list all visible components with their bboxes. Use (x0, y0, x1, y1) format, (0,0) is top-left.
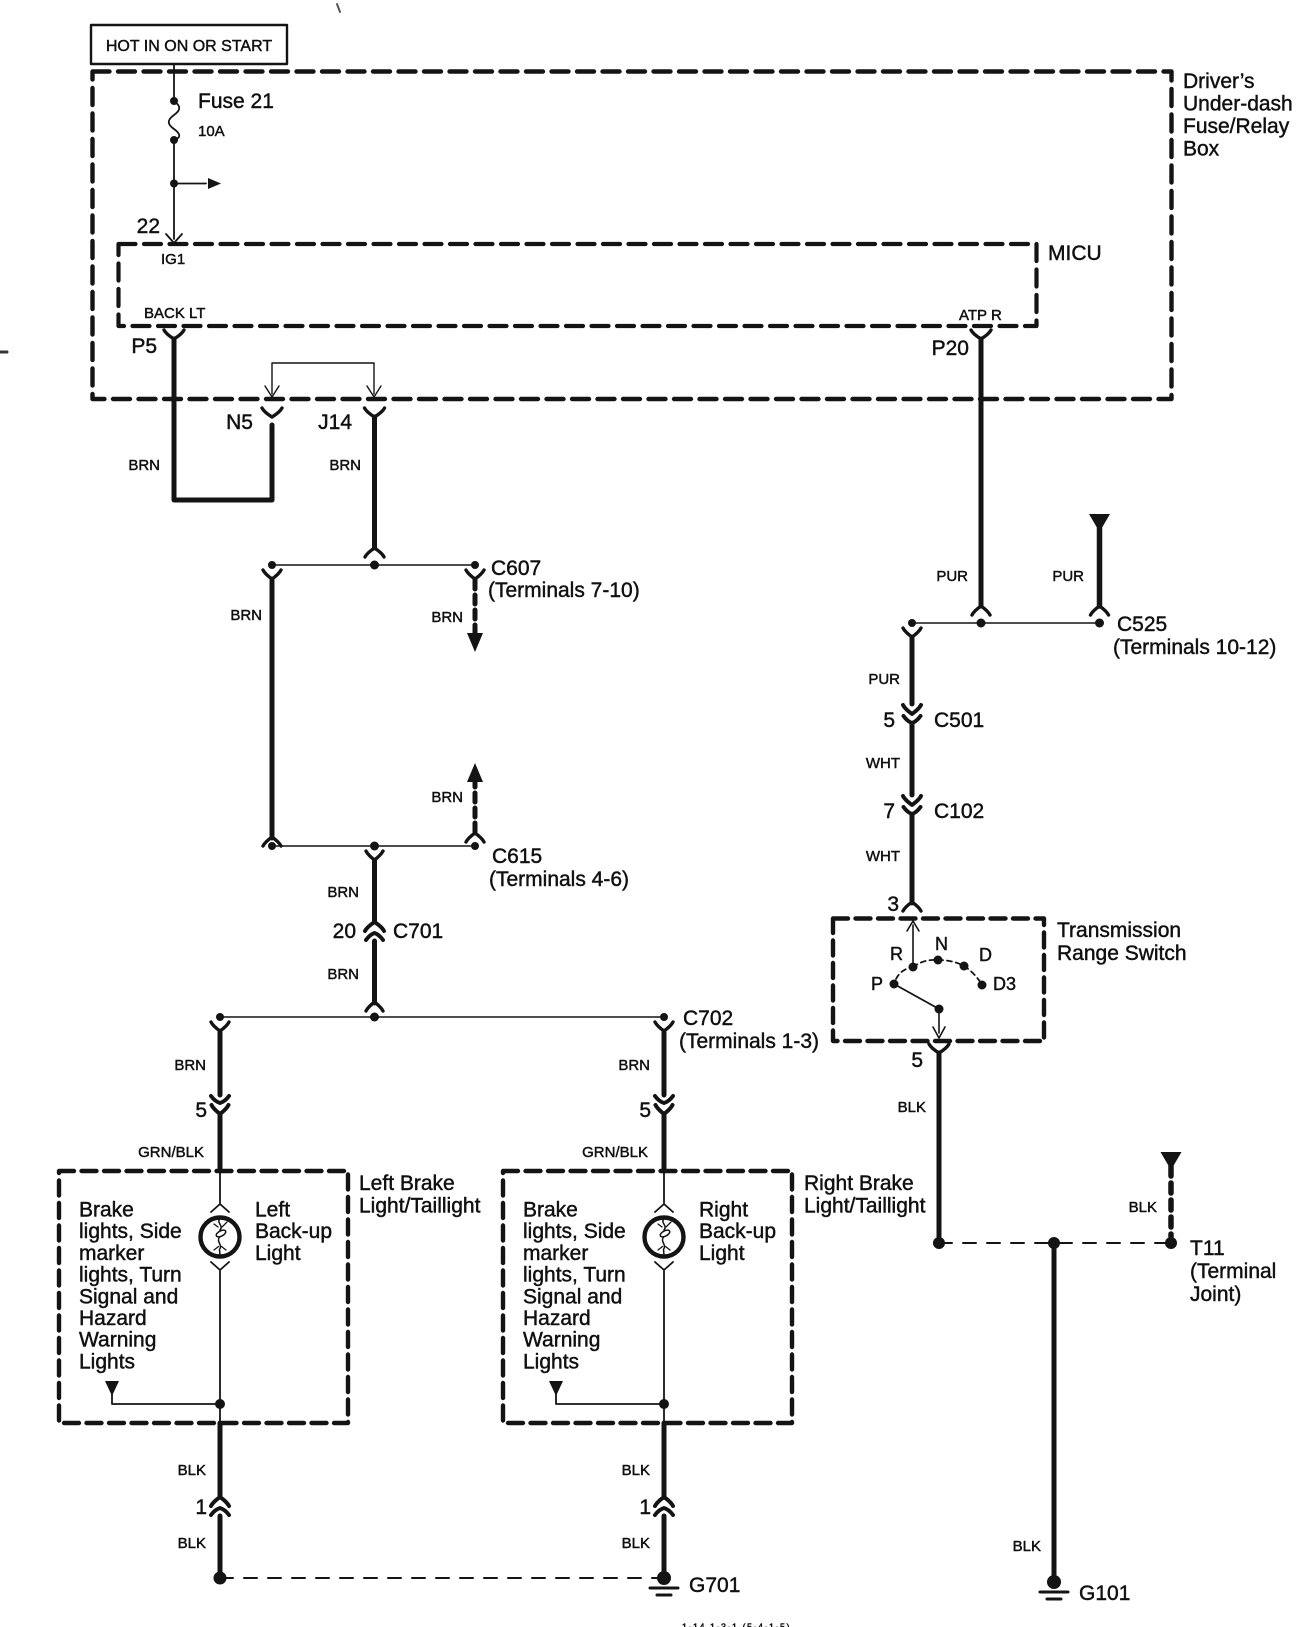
connector C501 pin 5 (883, 705, 984, 732)
svg-text:Hazard: Hazard (523, 1307, 591, 1330)
svg-text:5: 5 (883, 709, 895, 732)
svg-text:N5: N5 (226, 411, 253, 434)
svg-text:Hazard: Hazard (79, 1307, 147, 1330)
wire from HOT box to fuse (173, 64, 175, 101)
connector C701 pin 20 (333, 920, 444, 943)
svg-text:C525: C525 (1117, 613, 1167, 636)
switch wiper arm (894, 984, 939, 1009)
svg-text:Warning: Warning (79, 1329, 156, 1352)
scan artifact left edge (0, 351, 7, 354)
svg-text:ATP R: ATP R (959, 307, 1002, 324)
wire PUR stub from other circuit into C525 (1052, 514, 1110, 615)
svg-text:Right Brake: Right Brake (804, 1172, 914, 1195)
svg-text:C615: C615 (492, 845, 542, 868)
node T11 (Terminal Joint) (1190, 1237, 1276, 1306)
svg-text:IG1: IG1 (161, 251, 185, 268)
svg-text:C607: C607 (491, 557, 541, 580)
svg-text:Transmission: Transmission (1057, 919, 1181, 942)
svg-text:WHT: WHT (866, 755, 900, 772)
lamp right back-up light bulb (645, 1171, 777, 1404)
wire J14 BRN down to C607 junction (329, 417, 384, 557)
connector C5 left pin 5 (195, 1096, 229, 1122)
node C525 junction line (Terminals 10-12) (908, 613, 1276, 659)
svg-text:Right: Right (699, 1199, 748, 1222)
svg-text:Lights: Lights (79, 1350, 135, 1373)
node C607 junction line (Terminals 7-10) (268, 557, 640, 602)
svg-text:Box: Box (1183, 138, 1220, 161)
svg-text:BLK: BLK (178, 1535, 206, 1552)
svg-text:Brake: Brake (523, 1199, 578, 1222)
node J14 (318, 408, 384, 434)
svg-text:Range Switch: Range Switch (1057, 942, 1187, 965)
wire BRN left branch C607 to C615 (230, 570, 281, 846)
node P20 (MICU output ATP R) (932, 330, 991, 360)
svg-text:BLK: BLK (1129, 1199, 1157, 1216)
svg-text:MICU: MICU (1048, 242, 1102, 265)
svg-text:Under-dash: Under-dash (1183, 93, 1293, 116)
wire BLK T11 to ground G101 (1013, 1243, 1054, 1576)
svg-text:Lights: Lights (523, 1350, 579, 1373)
scan artifact apostrophe top (337, 4, 340, 12)
wire loop arrows N5/J14 entering fuse box (265, 363, 381, 397)
node C702 junction line (Terminals 1-3) (216, 1007, 819, 1053)
svg-text:BACK LT: BACK LT (144, 305, 205, 322)
svg-text:Brake: Brake (79, 1199, 134, 1222)
svg-text:lights, Side: lights, Side (79, 1220, 182, 1243)
wire GRN/BLK into right taillight (582, 1115, 664, 1171)
svg-text:GRN/BLK: GRN/BLK (582, 1144, 648, 1161)
svg-text:5: 5 (911, 1049, 923, 1072)
svg-text:PUR: PUR (936, 568, 968, 585)
svg-text:20: 20 (333, 920, 356, 943)
svg-text:G101: G101 (1079, 1582, 1130, 1605)
wire BLK left taillight to connector 1 (178, 1423, 220, 1496)
svg-text:Signal and: Signal and (523, 1285, 622, 1308)
svg-text:Driver’s: Driver’s (1183, 70, 1255, 93)
svg-text:BRN: BRN (431, 609, 463, 626)
node HOT IN ON OR START supply box (91, 25, 287, 64)
node P5 (MICU output BACK LT) (131, 330, 184, 358)
svg-text:BRN: BRN (327, 966, 359, 983)
svg-text:BLK: BLK (178, 1462, 206, 1479)
svg-text:Left Brake: Left Brake (359, 1172, 455, 1195)
svg-text:BLK: BLK (622, 1462, 650, 1479)
svg-text:(Terminals 4-6): (Terminals 4-6) (489, 868, 629, 891)
svg-text:(Terminals 7-10): (Terminals 7-10) (488, 579, 640, 602)
wire WHT C102 to transmission range switch pin 3 (866, 815, 921, 916)
switch S1 transmission range contacts (871, 921, 1016, 1038)
wire BRN branch to other circuit (dashed arrow down from C607) (431, 570, 484, 652)
svg-text:5: 5 (639, 1099, 651, 1122)
wire BLK to ground G701 (622, 1516, 664, 1572)
Left Brake Light/Taillight (dashed box) (59, 1171, 481, 1423)
svg-text:PUR: PUR (1052, 568, 1084, 585)
svg-text:3: 3 (887, 893, 899, 916)
connector C5 right pin 5 (639, 1096, 673, 1122)
svg-text:lights, Turn: lights, Turn (523, 1264, 626, 1287)
svg-text:BRN: BRN (128, 457, 160, 474)
connector C1 left pin 1 (195, 1496, 229, 1519)
svg-text:marker: marker (523, 1242, 588, 1265)
svg-text:T11: T11 (1190, 1237, 1225, 1260)
ground G701 (650, 1571, 740, 1597)
svg-text:1: 1 (639, 1496, 651, 1519)
svg-text:10A: 10A (198, 123, 225, 140)
wire P5 BRN down and U-bend to N5 (128, 339, 272, 500)
svg-text:Light: Light (699, 1242, 745, 1265)
svg-text:Back-up: Back-up (255, 1220, 332, 1243)
wire T11 joint rail (dashed) (939, 1237, 1177, 1249)
wire BRN C615 to C701 (327, 851, 383, 921)
svg-text:5: 5 (195, 1099, 207, 1122)
wire BLK switch to ground rail (898, 1053, 945, 1249)
svg-text:N: N (935, 934, 948, 954)
MICU (dashed box) (119, 242, 1102, 326)
wire BRN C701 to C702 (327, 941, 383, 1011)
svg-text:Fuse/Relay: Fuse/Relay (1183, 115, 1290, 138)
wire BLK right taillight to connector 1 (622, 1423, 664, 1496)
svg-text:C501: C501 (934, 709, 984, 732)
svg-text:1-14 1-3-1 (5-4-1-5): 1-14 1-3-1 (5-4-1-5) (682, 1622, 791, 1627)
svg-text:BLK: BLK (1013, 1538, 1041, 1555)
wire fuse to MICU pin 22 with branch arrow (137, 140, 221, 243)
svg-text:22: 22 (137, 215, 160, 238)
node C615 junction line (Terminals 4-6) (268, 842, 629, 892)
svg-text:marker: marker (79, 1242, 144, 1265)
node N5 (226, 408, 282, 434)
svg-text:lights, Side: lights, Side (523, 1220, 626, 1243)
Right Brake Light/Taillight (dashed box) (503, 1171, 926, 1423)
Driver's Under-dash Fuse/Relay Box (dashed enclosure) (93, 70, 1293, 399)
wire BRN branch from other circuit (dashed arrow up into C615) (431, 763, 484, 842)
svg-text:J14: J14 (318, 411, 352, 434)
svg-text:WHT: WHT (866, 848, 900, 865)
svg-text:PUR: PUR (868, 671, 900, 688)
wire BRN C702 to right connector 5 (618, 1022, 673, 1095)
wire BLK stub from other circuit into T11 (dashed) (1129, 1152, 1182, 1237)
svg-text:C102: C102 (934, 800, 984, 823)
svg-text:Joint): Joint) (1190, 1283, 1241, 1306)
node pin 5 of transmission range switch (911, 1044, 949, 1072)
node Brake lights feed note (left) (79, 1199, 182, 1374)
svg-text:Fuse 21: Fuse 21 (198, 90, 274, 113)
wire BRN C702 to left connector 5 (174, 1022, 229, 1095)
svg-text:Left: Left (255, 1199, 290, 1222)
svg-text:BLK: BLK (622, 1535, 650, 1552)
node Brake lights feed note (right) (523, 1199, 626, 1374)
svg-text:Warning: Warning (523, 1329, 600, 1352)
svg-text:1: 1 (195, 1496, 207, 1519)
wire PUR C525 to C501 (868, 628, 921, 704)
svg-text:P: P (871, 974, 883, 994)
svg-text:BLK: BLK (898, 1099, 926, 1116)
wire BLK to G701 rail (178, 1516, 227, 1585)
svg-text:G701: G701 (689, 1574, 740, 1597)
svg-text:Signal and: Signal and (79, 1285, 178, 1308)
svg-text:(Terminals 1-3): (Terminals 1-3) (679, 1030, 819, 1053)
svg-text:GRN/BLK: GRN/BLK (138, 1144, 204, 1161)
connector C102 pin 7 (883, 796, 984, 823)
svg-text:R: R (890, 944, 903, 964)
svg-text:C702: C702 (683, 1007, 733, 1030)
svg-text:P5: P5 (131, 335, 157, 358)
svg-text:(Terminals 10-12): (Terminals 10-12) (1113, 636, 1276, 659)
svg-text:D: D (979, 945, 992, 965)
svg-text:BRN: BRN (174, 1057, 206, 1074)
svg-text:BRN: BRN (431, 789, 463, 806)
wire GRN/BLK into left taillight (138, 1115, 220, 1171)
svg-text:Light: Light (255, 1242, 301, 1265)
ground G101 (1040, 1575, 1130, 1605)
svg-text:BRN: BRN (230, 607, 262, 624)
wire WHT C501 to C102 (866, 724, 912, 795)
svg-text:(Terminal: (Terminal (1190, 1260, 1276, 1283)
wire brake-lights branch to junction (right) (549, 1381, 669, 1423)
svg-text:D3: D3 (993, 974, 1016, 994)
connector C1 right pin 1 (639, 1496, 673, 1519)
svg-text:HOT IN ON OR START: HOT IN ON OR START (106, 38, 272, 55)
svg-text:lights, Turn: lights, Turn (79, 1264, 182, 1287)
svg-text:Light/Taillight: Light/Taillight (359, 1195, 481, 1218)
svg-text:C701: C701 (393, 920, 443, 943)
wire shared ground rail (dashed) (220, 1577, 664, 1579)
svg-text:Back-up: Back-up (699, 1220, 776, 1243)
lamp left back-up light bulb (201, 1171, 333, 1404)
fuse F21 (Fuse 21 10A) (169, 90, 274, 144)
svg-text:BRN: BRN (327, 884, 359, 901)
svg-text:7: 7 (883, 800, 895, 823)
svg-text:BRN: BRN (329, 457, 361, 474)
svg-text:Light/Taillight: Light/Taillight (804, 1195, 926, 1218)
wire PUR P20 down to C525 junction (936, 339, 990, 615)
wire brake-lights branch to junction (left) (105, 1381, 225, 1423)
svg-text:BRN: BRN (618, 1057, 650, 1074)
svg-text:P20: P20 (932, 337, 969, 360)
Transmission Range Switch (dashed box) (833, 919, 1187, 1042)
